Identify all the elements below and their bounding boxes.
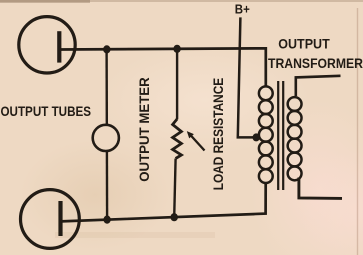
svg-text:B+: B+ — [235, 2, 250, 16]
svg-text:OUTPUT METER: OUTPUT METER — [137, 77, 152, 182]
svg-text:OUTPUT TUBES: OUTPUT TUBES — [1, 103, 92, 119]
svg-text:OUTPUT: OUTPUT — [278, 36, 330, 51]
svg-text:LOAD RESISTANCE: LOAD RESISTANCE — [211, 78, 226, 191]
svg-text:TRANSFORMER: TRANSFORMER — [268, 55, 363, 71]
